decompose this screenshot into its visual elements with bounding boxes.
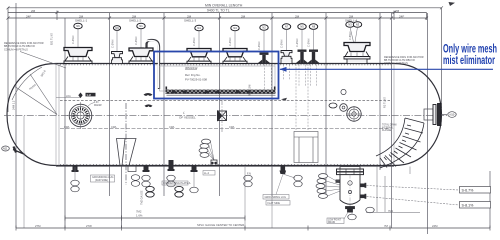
dim riser left head	[23, 116, 25, 228]
svg-text:MIN 1.5M: MIN 1.5M	[248, 85, 252, 96]
svg-text:C-2%N: C-2%N	[280, 40, 284, 48]
boot dimension risers	[366, 166, 420, 213]
vortex breaker box	[294, 132, 318, 163]
svg-text:SPLC GAUGE CENTER TO CENTER: SPLC GAUGE CENTER TO CENTER	[197, 223, 244, 227]
svg-text:SHELL-1: SHELL-1	[75, 19, 88, 23]
svg-text:DRAIN: DRAIN	[328, 221, 335, 224]
balloon leader centerlines with rotated size text	[78, 27, 358, 52]
bottom main dim line	[16, 226, 490, 231]
svg-text:C-2%N: C-2%N	[307, 39, 311, 47]
svg-text:C-4%N: C-4%N	[134, 37, 138, 45]
svg-text:MIN OVERALL LENGTH: MIN OVERALL LENGTH	[205, 4, 243, 8]
svg-text:LL-2: LL-2	[204, 172, 210, 175]
dim riser x272	[271, 167, 273, 228]
svg-text:mist eliminator: mist eliminator	[443, 55, 495, 67]
svg-text:N7: N7	[285, 25, 289, 29]
dim riser below right head	[409, 167, 411, 175]
svg-text:9400 TL TO TL: 9400 TL TO TL	[207, 8, 230, 12]
svg-text:N3: N3	[348, 23, 352, 27]
svg-text:C-4%N: C-4%N	[257, 42, 261, 50]
svg-text:24F: 24F	[399, 14, 404, 18]
nozzle N4b x=235	[223, 49, 247, 64]
svg-text:CONNECTING PLATE A: CONNECTING PLATE A	[163, 182, 191, 185]
reference text block on right head	[384, 56, 424, 65]
svg-text:7M1: 7M1	[388, 209, 394, 213]
nozzle N5 dark T x=302	[295, 50, 308, 64]
svg-text:N4: N4	[197, 26, 201, 30]
svg-text:C-4%N: C-4%N	[71, 36, 75, 44]
svg-text:SHELL-2: SHELL-2	[129, 19, 142, 23]
svg-text:C-6%N: C-6%N	[348, 32, 352, 40]
svg-text:C-2%N: C-2%N	[295, 39, 299, 47]
demister mesh bar	[160, 66, 276, 95]
svg-text:S-8.1%: S-8.1%	[462, 204, 475, 208]
demister support frame	[160, 66, 276, 91]
low point drain label	[327, 218, 344, 224]
svg-text:27M: 27M	[35, 224, 41, 228]
svg-text:821 TL I/S: 821 TL I/S	[50, 33, 54, 45]
demister label text	[185, 66, 207, 82]
boot boxed labels with dashed leaders	[367, 186, 460, 206]
nozzle projection circle right	[346, 106, 362, 122]
right head internal elbow fan (hatched)	[376, 118, 424, 168]
nozzle N4a x=199	[187, 49, 211, 64]
svg-text:1.6%: 1.6%	[136, 214, 143, 218]
internal dashed pipes from N2/N5	[265, 64, 317, 131]
HLL dashed level line	[60, 99, 390, 101]
svg-text:Only wire mesh: Only wire mesh	[443, 44, 497, 56]
svg-text:24M 1.2: 24M 1.2	[12, 100, 16, 110]
tangent line seams	[56, 64, 394, 166]
bottom small nozzle x=75	[72, 166, 79, 173]
stub below weir	[128, 166, 136, 172]
svg-text:INTERNAL: INTERNAL	[382, 126, 394, 129]
shell course labels	[26, 14, 404, 22]
svg-text:N11: N11	[3, 147, 8, 151]
nozzle N2 dark T x=264	[257, 53, 270, 64]
svg-text:CWL: CWL	[229, 125, 235, 129]
top-right corner arrow mark	[449, 2, 456, 6]
svg-text:TOTAL DRAW: TOTAL DRAW	[382, 124, 398, 127]
fan of balloons mid-bottom	[199, 139, 211, 157]
svg-text:7M: 7M	[384, 224, 389, 228]
svg-text:ℂ: ℂ	[183, 111, 185, 115]
svg-text:CONUM = 8 PETALS: CONUM = 8 PETALS	[384, 62, 408, 65]
level instrument bird symbols	[144, 93, 153, 96]
svg-text:CWL: CWL	[111, 125, 117, 129]
svg-text:N2: N2	[262, 26, 266, 30]
svg-text:N3: N3	[356, 23, 360, 27]
bottom nozzle x=171	[168, 160, 175, 171]
left head lower nozzle stub	[13, 147, 25, 155]
lifting lug boxed label	[203, 171, 215, 176]
svg-text:R2 TL I/S: R2 TL I/S	[383, 97, 387, 108]
bottom nozzle x=282.8 dark	[280, 166, 287, 175]
svg-text:N1: N1	[139, 24, 143, 28]
svg-text:FLANGE: FLANGE	[382, 129, 392, 132]
svg-text:24F: 24F	[26, 14, 31, 18]
reference text block top-left	[4, 42, 44, 51]
svg-text:S-6.7%: S-6.7%	[462, 189, 475, 193]
svg-text:N8: N8	[312, 25, 316, 29]
nozzle N7 spool x=286.5	[281, 51, 292, 64]
svg-text:C-4%N: C-4%N	[228, 38, 232, 46]
svg-text:N6: N6	[76, 24, 80, 28]
svg-text:2M: 2M	[295, 14, 300, 18]
small stub at x=214	[211, 160, 217, 166]
inlet elbow pipe going into shell	[147, 40, 160, 89]
manway M1 head-on circle	[67, 102, 94, 129]
bottom nozzle x=194	[191, 166, 198, 173]
svg-text:2M: 2M	[395, 9, 400, 13]
balloon pair x179	[175, 186, 183, 191]
svg-text:2M: 2M	[241, 14, 246, 18]
svg-text:2M: 2M	[31, 9, 36, 13]
svg-text:CWL: CWL	[169, 125, 175, 129]
svg-text:R1450: R1450	[28, 83, 37, 91]
bottom dim line 1	[65, 216, 245, 221]
vessel shell outline	[7, 64, 442, 166]
internal weir plate trapezoid	[117, 139, 137, 166]
svg-text:CONUM = 8 PETALS: CONUM = 8 PETALS	[4, 48, 28, 51]
boot side nozzles	[336, 180, 367, 199]
left head	[7, 64, 56, 166]
svg-text:GROUNDING LUG: GROUNDING LUG	[265, 196, 286, 199]
dimension line: shell courses	[7, 17, 429, 20]
svg-text:N10: N10	[450, 113, 455, 117]
right head	[394, 64, 442, 166]
nozzle N1 x=141 with inlet elbow pipe	[129, 48, 153, 64]
balloon at left head nozzle	[2, 146, 10, 151]
blue leader line with arrow	[280, 68, 493, 70]
svg-text:F.N: F.N	[247, 172, 251, 176]
grounding lug boxed labels	[263, 195, 289, 200]
svg-text:CWL: CWL	[64, 125, 70, 129]
nozzle N8 dark T x=313.5	[307, 50, 320, 64]
svg-text:OF VESSEL: OF VESSEL	[179, 116, 196, 120]
nozzle skirt hatch lines	[73, 53, 363, 62]
balloon row above nozzles	[74, 22, 362, 31]
right head side nozzle	[424, 104, 441, 126]
left head radial dimension lines	[12, 67, 57, 115]
square level symbol at centre	[218, 111, 227, 121]
nozzle small spool x=117	[112, 52, 123, 64]
svg-text:N9: N9	[115, 26, 119, 30]
balloon below boot	[348, 214, 356, 220]
svg-text:MANW: MANW	[94, 104, 102, 107]
dimension line: MIN OVERALL LENGTH	[7, 6, 444, 112]
svg-text:N5: N5	[300, 25, 304, 29]
svg-text:PV-70029-01-008: PV-70029-01-008	[185, 78, 207, 82]
bottom double line	[56, 166, 394, 168]
vessel horizontal centerline	[4, 114, 448, 116]
liquid level dashed line	[60, 128, 390, 130]
svg-text:7M2 GAUGE: 7M2 GAUGE	[141, 190, 144, 205]
svg-text:27W: 27W	[86, 224, 92, 228]
svg-text:N4: N4	[233, 26, 237, 30]
svg-text:LOA: LOA	[66, 95, 71, 98]
svg-text:30M1/012: 30M1/012	[185, 66, 198, 70]
boot fan balloons left	[316, 174, 328, 199]
svg-text:(FAR SIDE): (FAR SIDE)	[95, 179, 108, 182]
svg-text:24M: 24M	[432, 224, 438, 228]
svg-text:SHELL-3: SHELL-3	[184, 19, 197, 23]
grounding lug label	[92, 176, 113, 182]
bottom nozzle x=146	[143, 166, 150, 173]
blue highlight box around demister	[154, 52, 279, 99]
svg-text:Ref. Drg No.: Ref. Drg No.	[185, 73, 201, 77]
nozzle M1 (manway with davit) x=78	[64, 48, 92, 64]
boot	[337, 167, 364, 212]
nozzle N3 large x=357	[344, 43, 370, 64]
balloon pair x150	[146, 186, 154, 191]
svg-text:C-4%N: C-4%N	[192, 38, 196, 46]
svg-text:FLAT SIDE: FLAT SIDE	[268, 202, 281, 205]
dim riser x245	[244, 167, 246, 228]
svg-text:C-2%N: C-2%N	[111, 40, 115, 48]
svg-text:3-M: 3-M	[87, 93, 91, 97]
svg-text:SR1.8: SR1.8	[39, 69, 47, 78]
manway centre dim marker	[78, 93, 82, 99]
top weld seam tick dashes	[60, 64, 392, 66]
dimension line: 9400 TL TO TL	[8, 11, 427, 21]
